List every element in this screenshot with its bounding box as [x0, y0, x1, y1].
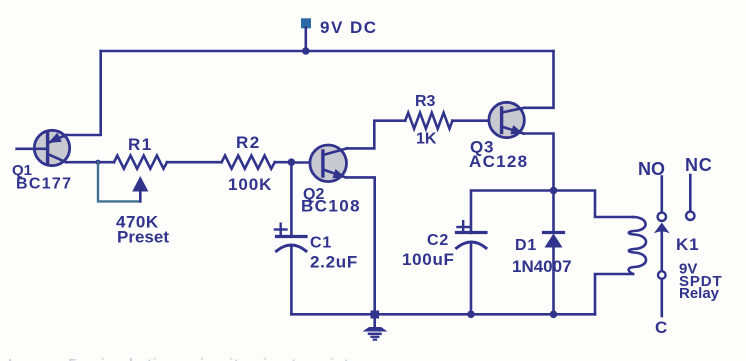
node: D1 ground junction [550, 311, 558, 319]
resistor R1 [114, 156, 167, 169]
wire: Q1 collector to R1 [66, 161, 114, 164]
capacitor C2 [457, 221, 487, 248]
transistor Q3 [489, 102, 525, 137]
svg-text:1K: 1K [416, 131, 437, 148]
wire: R1 to R2 [167, 161, 222, 164]
wire: R2 to Q2 base node [275, 161, 292, 164]
node: C2 ground junction [467, 311, 475, 319]
wire: rail down to Q3 collector [525, 51, 554, 108]
svg-text:BC177: BC177 [16, 176, 72, 193]
wire: ground rail (bottom) [291, 313, 595, 316]
svg-text:Preset: Preset [117, 228, 169, 247]
svg-text:R1: R1 [128, 135, 153, 154]
wire: junction to relay coil top [554, 191, 634, 218]
wire: C1 bottom to ground rail [290, 246, 293, 314]
wire: Q2 emitter down to ground rail [346, 177, 375, 314]
svg-text:NO: NO [638, 159, 665, 179]
svg-text:C: C [655, 318, 667, 337]
wire: D1 cathode from junction [552, 191, 555, 233]
svg-text:BC108: BC108 [301, 197, 361, 216]
svg-text:C1: C1 [310, 235, 332, 252]
svg-text:AC128: AC128 [469, 152, 528, 171]
wire: relay coil bottom to ground rail [595, 274, 633, 314]
svg-text:100K: 100K [228, 175, 272, 194]
wire: rail down to Q1 emitter [65, 51, 101, 135]
svg-text:C2: C2 [427, 232, 449, 249]
svg-text:NC: NC [685, 155, 713, 175]
node: ground junction (Q2 emitter / rail) [371, 311, 380, 319]
preset wiper of R1 (470K) [98, 162, 148, 201]
wire: R3 to Q3 base [452, 119, 501, 122]
wire: C1 top from base junction [290, 162, 293, 236]
svg-text:2.2uF: 2.2uF [310, 253, 358, 272]
node: +9V rail junction [302, 47, 310, 55]
svg-text:100uF: 100uF [402, 250, 455, 269]
faint cropped caption at bottom edge [8, 356, 746, 361]
node: Q3 emitter / D1 / C2 / relay junction [550, 187, 558, 195]
wire: junction to Q2 base [291, 161, 323, 164]
capacitor C1 [275, 224, 306, 251]
ground [363, 318, 388, 340]
resistor R2 [222, 156, 275, 169]
node: R2 / Q2 base / C1 junction [288, 158, 296, 166]
wire: Q3 emitter to relay/diode node [524, 134, 554, 191]
wire: Q2 collector up to R3 [347, 121, 405, 149]
svg-text:1N4007: 1N4007 [512, 257, 572, 276]
svg-text:K1: K1 [676, 235, 699, 254]
relay K1 coil [629, 217, 646, 274]
relay K1 contact NC [686, 175, 694, 220]
svg-text:9V DC: 9V DC [320, 18, 378, 37]
transistor Q2 [310, 145, 347, 182]
relay K1 contact NO [658, 177, 666, 222]
wire: +9V top rail [101, 50, 554, 53]
svg-text:R2: R2 [236, 133, 261, 152]
svg-text:D1: D1 [515, 237, 537, 254]
wire: D1 anode to ground rail [552, 248, 555, 315]
diode D1 [544, 233, 564, 248]
wire: C2 bottom to ground rail [470, 243, 473, 314]
wire: supply stub down to +9V rail [304, 28, 307, 52]
power symbol: 9V DC supply terminal [302, 19, 311, 28]
wire: junction left to C2 [471, 191, 554, 234]
svg-text:Relay: Relay [679, 285, 720, 302]
transistor Q1 [17, 130, 70, 165]
node: preset wiper tap on Q1 collector line [95, 160, 100, 165]
svg-text:R3: R3 [415, 93, 436, 110]
relay K1 armature arrow [654, 223, 670, 317]
resistor R3 [405, 113, 452, 129]
